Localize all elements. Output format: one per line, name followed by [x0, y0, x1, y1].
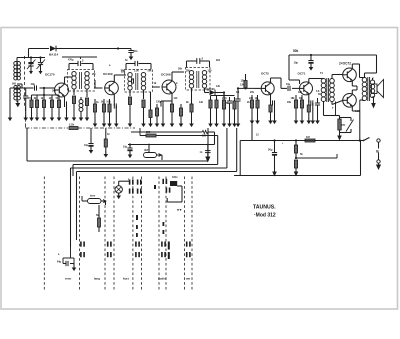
resistor series AF: [237, 74, 255, 90]
TR2 secondary coil: [141, 73, 145, 91]
AF coupling cap: [227, 97, 232, 127]
transistor T8 OC72: [343, 94, 357, 108]
svg-text:40μ: 40μ: [31, 82, 36, 86]
T6 collector wire: [309, 79, 322, 83]
lamp contacts: [129, 180, 142, 194]
contact cluster 1: [80, 242, 85, 258]
capacitor 50u rail: [268, 141, 277, 177]
T3 emitter wire: [171, 93, 173, 101]
resistor 15k T1 bias: [28, 95, 34, 121]
transistor T6 OC71: [300, 82, 313, 95]
switch S1: [363, 138, 381, 143]
tuning capacitor CV2 (trimmer): [37, 58, 46, 75]
switch column dashed: [113, 177, 115, 291]
svg-text:TAUNUS.: TAUNUS.: [253, 205, 276, 211]
volume pot 4k7: [144, 148, 163, 160]
svg-text:lang: lang: [94, 277, 100, 281]
oscillator transformer TR1 (dashed box): [68, 70, 95, 92]
T5 emitter wire: [270, 94, 272, 100]
T2 base wire: [95, 80, 103, 88]
TR3 primary coil: [189, 71, 193, 89]
wire secondary: [373, 78, 374, 97]
resistor T6 emitter: [307, 100, 312, 124]
TR3 bottom wires: [192, 88, 205, 104]
wire bus down right: [234, 141, 361, 176]
wire T2 emitter resistor: [113, 103, 115, 106]
resistor 1k T5: [255, 95, 260, 124]
svg-text:500: 500: [12, 83, 17, 86]
TR4 primary bottom: [322, 79, 324, 116]
TR1 core: [80, 72, 82, 89]
svg-text:10μ: 10μ: [294, 61, 299, 65]
TR5 top feed: [365, 60, 377, 78]
svg-text:1M: 1M: [306, 135, 310, 139]
T7 emitter wire: [352, 81, 357, 86]
resistor 2.2k TR2 sec: [141, 100, 146, 127]
detector load resistor: [208, 96, 213, 128]
T1 collector wire: [65, 77, 73, 84]
thermistor NTC: [340, 118, 354, 133]
svg-text:2.2k: 2.2k: [69, 123, 75, 127]
contact cluster 4: [161, 242, 170, 260]
emitter common: [356, 86, 358, 90]
svg-text:64μ: 64μ: [57, 261, 62, 264]
svg-text:10μ: 10μ: [123, 146, 128, 149]
TR1 secondary coil: [85, 72, 89, 90]
TR2 core: [136, 73, 138, 90]
switch wire B: [76, 176, 78, 240]
resistor 220 zigzag: [202, 130, 215, 144]
switch wire A: [70, 176, 72, 247]
antenna tap wire: [17, 84, 34, 88]
TR3 core: [197, 71, 199, 88]
resistor 12k under TR1: [72, 96, 77, 121]
svg-text:470: 470: [341, 124, 346, 127]
TR3 top wires: [187, 58, 210, 67]
contact cluster 5: [186, 242, 191, 258]
svg-text:12k: 12k: [199, 101, 204, 104]
resistor T3 emitter: [170, 101, 175, 127]
svg-text:12k: 12k: [240, 84, 245, 87]
svg-text:tono: tono: [90, 195, 96, 198]
svg-text:am: am: [186, 277, 191, 281]
switch column dashed: [79, 177, 81, 291]
svg-text:0.12: 0.12: [355, 110, 360, 113]
resistor chain rail: [294, 141, 299, 177]
resistor 1k T1 bias: [41, 95, 47, 121]
cap bias: [315, 98, 320, 124]
svg-text:2M: 2M: [92, 73, 95, 76]
svg-text:70k: 70k: [121, 70, 126, 73]
svg-text:1k2: 1k2: [298, 91, 303, 94]
TR5 secondary coil: [370, 80, 374, 98]
capacitor T2 emitter: [114, 103, 119, 127]
capacitor 10u left rail: [84, 128, 94, 154]
IF transformer TR3 (dashed box): [186, 68, 211, 91]
svg-text:2k2: 2k2: [216, 59, 221, 62]
TR1 top wires: [62, 57, 97, 69]
svg-text:100n: 100n: [172, 176, 178, 179]
TR4 core: [327, 78, 329, 102]
cap T6 emitter: [309, 100, 315, 124]
tone pot: [82, 195, 106, 206]
svg-text:·Mod 312: ·Mod 312: [254, 213, 276, 219]
tone resistor: [98, 205, 101, 232]
diode D1 BA114: [50, 46, 62, 52]
svg-text:audio: audio: [158, 277, 166, 281]
svg-text:12k: 12k: [216, 85, 221, 88]
svg-text:kurz: kurz: [123, 277, 129, 281]
driver transformer TR4 primary: [321, 79, 326, 102]
resistor 50n T1 bias: [56, 95, 62, 121]
svg-text:120: 120: [49, 97, 54, 100]
resistor 470 fb: [338, 116, 341, 135]
wire output down: [359, 111, 361, 141]
capacitor 10u coupling: [281, 83, 299, 91]
wire antenna top to diode: [29, 49, 50, 58]
switch column dashed: [184, 177, 186, 291]
svg-text:BA114: BA114: [49, 53, 59, 57]
coupling coil L2: [79, 97, 84, 121]
switch column dashed: [158, 177, 160, 291]
switch column dashed: [43, 177, 45, 291]
svg-text:18k: 18k: [287, 101, 292, 104]
svg-text:18k: 18k: [291, 97, 296, 100]
resistor 2.2k on AGC line: [69, 127, 135, 130]
T6 emitter wire: [308, 94, 310, 100]
wire left bias: [8, 88, 13, 121]
transistor T3 OC169: [162, 80, 176, 94]
resistor T5 emitter: [268, 100, 273, 124]
resistor 18k T6: [291, 95, 299, 124]
T5 base wire: [255, 87, 261, 89]
contact cluster 3: [135, 242, 140, 258]
audio contacts group: [162, 179, 182, 211]
switch column dashed: [165, 177, 167, 291]
svg-text:12k: 12k: [241, 80, 246, 83]
ferrite antenna coil L1: [14, 58, 21, 100]
capacitor 120u T3: [156, 100, 165, 127]
ground feedback: [337, 135, 342, 141]
svg-text:2×OC72: 2×OC72: [339, 62, 351, 66]
wire rail left drop: [289, 55, 300, 84]
svg-text:470p: 470p: [68, 59, 74, 62]
switch column dashed: [104, 177, 106, 291]
cap 64u tone: [57, 247, 76, 271]
bus line AGC: [27, 128, 208, 161]
resistor 3k T1 bias: [34, 95, 40, 121]
speaker ground: [371, 97, 376, 109]
T3 collector wire: [172, 72, 184, 81]
center tap down: [324, 115, 340, 117]
cap T5 emitter: [271, 100, 277, 124]
transistor T7 OC72: [343, 68, 357, 82]
resistor 4.7k under TR1: [85, 98, 90, 121]
svg-text:50k: 50k: [148, 70, 153, 73]
volume filter resistor: [214, 96, 219, 128]
T2 collector wire: [114, 75, 126, 82]
dial lamp: [115, 181, 129, 199]
svg-text:tono: tono: [65, 277, 71, 281]
switch column dashed: [141, 177, 143, 291]
bus det corner a: [131, 131, 202, 133]
svg-text:130: 130: [208, 70, 213, 73]
svg-text:2.5k: 2.5k: [134, 70, 139, 73]
wire base T1: [10, 87, 55, 89]
cap 10u bus: [123, 143, 133, 158]
resistor 120 T1 bias: [49, 95, 55, 121]
svg-text:15k: 15k: [28, 97, 33, 100]
resistor 2M T2 base: [93, 99, 98, 127]
resistor 22k T5: [249, 95, 254, 124]
svg-text:50k: 50k: [293, 49, 299, 53]
antenna secondary wire: [23, 88, 28, 121]
wire rail right drop: [376, 55, 378, 60]
resistor under TR3 prim: [189, 104, 194, 127]
IF transformer TR2 (dashed box): [125, 70, 153, 93]
wire rail to T5: [251, 118, 253, 141]
capacitor 1n mid: [200, 145, 211, 163]
capacitor 40u coupling: [31, 82, 37, 91]
svg-text:30k: 30k: [178, 68, 183, 71]
wire bias top: [32, 88, 60, 96]
svg-text:10μ: 10μ: [84, 144, 89, 147]
T1 emitter wire: [64, 96, 66, 101]
TR4 secondary taps: [332, 75, 343, 116]
output transformer TR5 primary: [362, 78, 367, 101]
detector diode OA79: [205, 90, 225, 95]
resistor 1k under T2: [101, 99, 107, 127]
transistor T2 OC169: [105, 81, 119, 95]
wire volume pot drop: [148, 145, 150, 153]
T2 emitter wire: [113, 95, 115, 104]
TR2 bottom wires: [130, 90, 144, 99]
resistor row extra 2: [179, 104, 184, 127]
svg-text:2M: 2M: [186, 70, 189, 73]
stray contacts mid: [136, 185, 164, 237]
TR1 bottom wires: [74, 89, 87, 97]
resistor row extra 1: [155, 104, 160, 127]
T8 emitter wire: [352, 107, 360, 111]
T8 collector wire: [352, 90, 357, 94]
TR4 secondary coil: [330, 79, 335, 102]
ferrite rod (dashed): [24, 56, 26, 107]
resistor 39 bias: [299, 95, 304, 124]
T7 collector wire: [352, 64, 362, 78]
capacitor 64u emitter: [64, 101, 69, 121]
svg-text:OC71: OC71: [298, 72, 306, 76]
antenna lower lead: [15, 100, 20, 107]
bus det corner b: [140, 128, 218, 137]
svg-text:10n: 10n: [106, 101, 111, 104]
resistor left rail: [104, 128, 109, 158]
gang link (dash-dot): [26, 107, 69, 128]
bus line 2: [73, 136, 218, 177]
bus line 3: [71, 128, 227, 176]
wire rail branch: [296, 154, 337, 158]
capacitor 10u decouple: [294, 55, 314, 71]
volume pot 5k: [222, 100, 230, 127]
svg-text:2.2k: 2.2k: [222, 97, 227, 100]
svg-text:OC169: OC169: [161, 73, 171, 77]
resistor 10n under T2: [106, 99, 112, 127]
wire top rail 50k: [289, 54, 377, 56]
battery jack B: [376, 142, 381, 170]
svg-text:OC75: OC75: [261, 72, 269, 76]
svg-text:25k: 25k: [250, 91, 255, 94]
svg-text:50n: 50n: [56, 97, 61, 100]
power bus stub: [239, 141, 241, 176]
switch column dashed: [191, 177, 193, 291]
TR2 top wires: [126, 61, 151, 69]
wire T3 emitter-cap: [161, 100, 172, 102]
contact cluster 2: [107, 242, 112, 258]
wire TR2 down bus: [148, 92, 153, 127]
svg-text:50μ: 50μ: [268, 148, 273, 152]
capacitor 30n to ground: [128, 49, 133, 61]
svg-text:30k: 30k: [52, 90, 57, 93]
svg-text:OAPC90: OAPC90: [205, 88, 215, 91]
svg-text:112: 112: [174, 97, 179, 100]
bus middle long: [128, 144, 215, 146]
svg-text:22k: 22k: [249, 97, 254, 100]
svg-text:OC170: OC170: [45, 73, 55, 77]
TR2 primary cap: [132, 78, 134, 83]
svg-text:220: 220: [146, 130, 151, 134]
switch column dashed: [132, 177, 134, 291]
wire diode to C bypass: [62, 47, 131, 49]
TR1 primary coil: [72, 72, 76, 90]
resistor 130 det: [232, 97, 237, 127]
TR2 primary coil: [128, 73, 132, 91]
wire T8 to output: [360, 100, 363, 111]
T3 base wire: [152, 86, 160, 88]
resistor 1M: [305, 135, 315, 142]
tuning capacitor CV1 (trimmer): [27, 58, 36, 75]
TR3 secondary coil: [202, 71, 206, 89]
power bus wire: [240, 139, 363, 141]
svg-text:30n: 30n: [133, 49, 138, 53]
wire detector out: [223, 91, 225, 100]
svg-text:4k7: 4k7: [144, 148, 149, 152]
wire trimmer top rail: [17, 56, 45, 58]
wire det top rail: [211, 94, 235, 96]
transistor T5 OC75: [261, 82, 274, 95]
resistor 12k TR2: [128, 97, 133, 127]
svg-text:OC169: OC169: [103, 72, 113, 76]
wire AF vertical: [235, 87, 240, 127]
TR5 core: [368, 77, 370, 101]
bus line 4: [77, 128, 237, 176]
T5 collector wire: [271, 78, 282, 88]
transistor T1 OC170: [55, 83, 69, 97]
speaker: [372, 80, 384, 98]
svg-text:10μ: 10μ: [286, 83, 291, 86]
